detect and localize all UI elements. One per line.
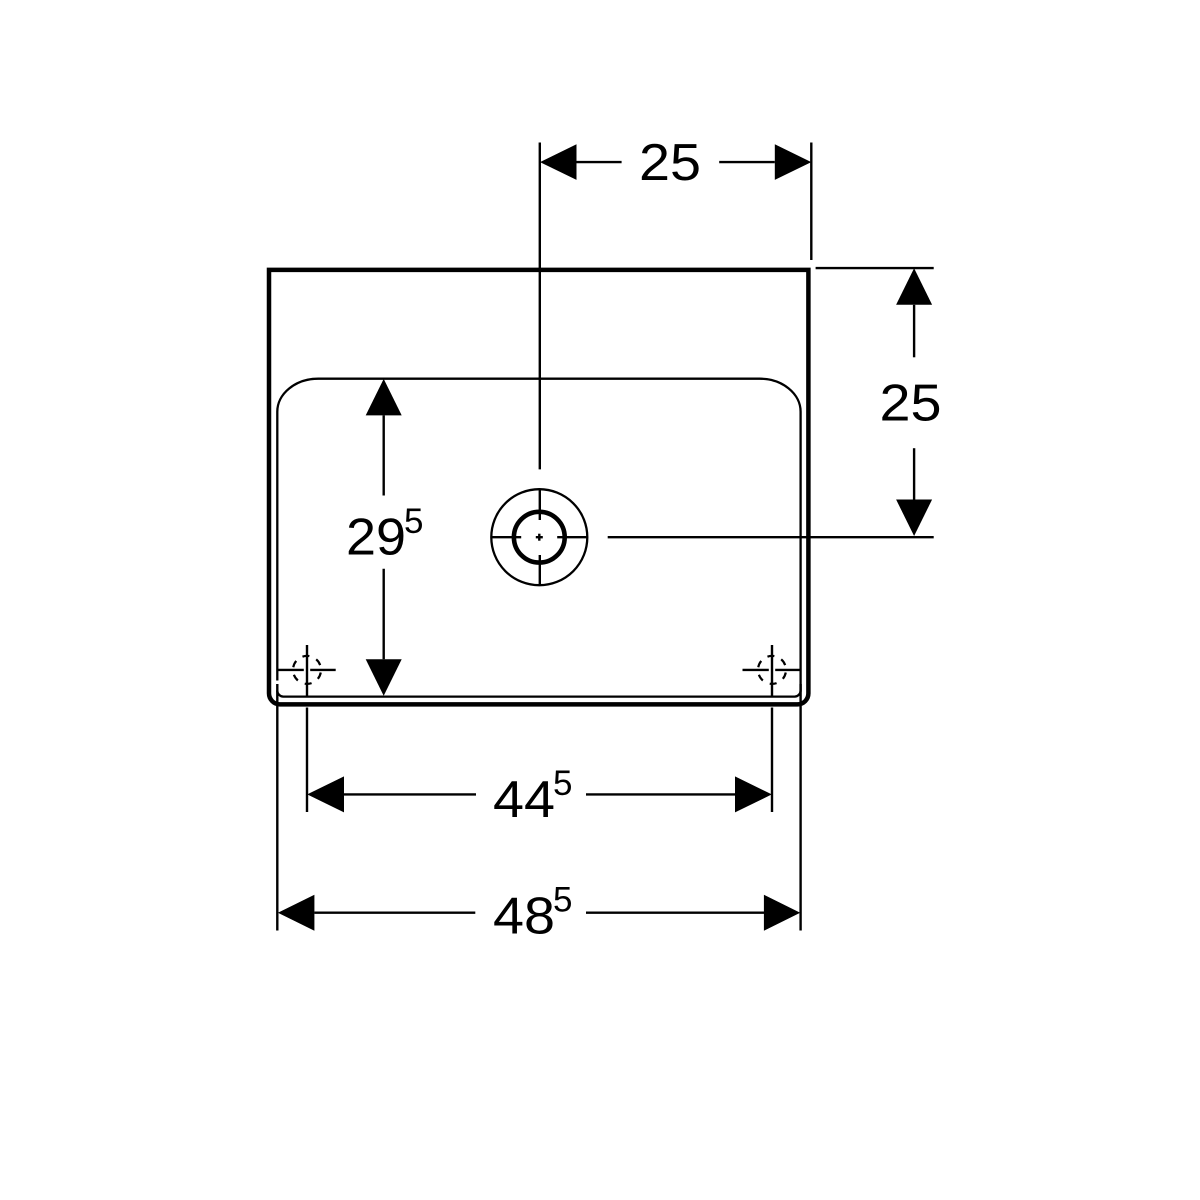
fixing hole right: horizontal centerline [743,669,769,671]
dim right 25: bottom extension line [608,536,934,538]
dim 48.5: left arrow [278,895,315,931]
fixing hole left: vertical centerline [306,645,308,696]
dim right 25: up arrow [896,268,932,305]
drain center cross [538,534,540,541]
svg-text:44: 44 [493,771,555,829]
dim 48.5: left extension line [276,684,278,931]
basin bowl outline [277,379,800,697]
drain outer circle [491,489,587,585]
svg-text:25: 25 [639,134,701,192]
dim right 25: down arrow [896,500,932,537]
dim 44.5: line segments [344,793,476,795]
dim 29.5: down arrow [366,659,402,696]
dim top 25: left arrow [540,144,577,180]
dim 48.5: right extension line [799,684,801,931]
dim 48.5: right arrow [764,895,800,931]
dim 44.5: right arrow [735,776,772,812]
dim top 25: right extension tick [810,143,812,261]
drain horizontal centerline [491,536,521,538]
drain waste ring [514,512,565,563]
fixing hole left: horizontal centerline [278,669,304,671]
fixing hole left: dashed circle [293,656,321,684]
fixing hole right: dashed circle [758,656,786,684]
fixing hole right: vertical centerline [771,645,773,696]
dim 44.5: left arrow [307,776,344,812]
dim 48.5: line segments [314,912,475,914]
svg-text:5: 5 [553,881,572,920]
dim 29.5: line segments [383,415,385,495]
dim right 25: line segments [913,305,915,358]
svg-text:29: 29 [346,508,406,566]
dim top 25: right arrow [775,144,812,180]
dim top 25: line segments [577,161,622,163]
svg-text:5: 5 [553,764,572,803]
dim 29.5: up arrow [366,379,402,416]
dim 44.5: right extension line [771,708,773,813]
svg-text:25: 25 [880,374,942,432]
basin outer rim [269,270,808,705]
dim 44.5: left extension line [306,708,308,813]
drain vertical centerline [539,143,541,470]
svg-text:48: 48 [493,888,555,946]
dim right 25: top extension line [816,267,934,269]
svg-text:5: 5 [404,502,423,541]
